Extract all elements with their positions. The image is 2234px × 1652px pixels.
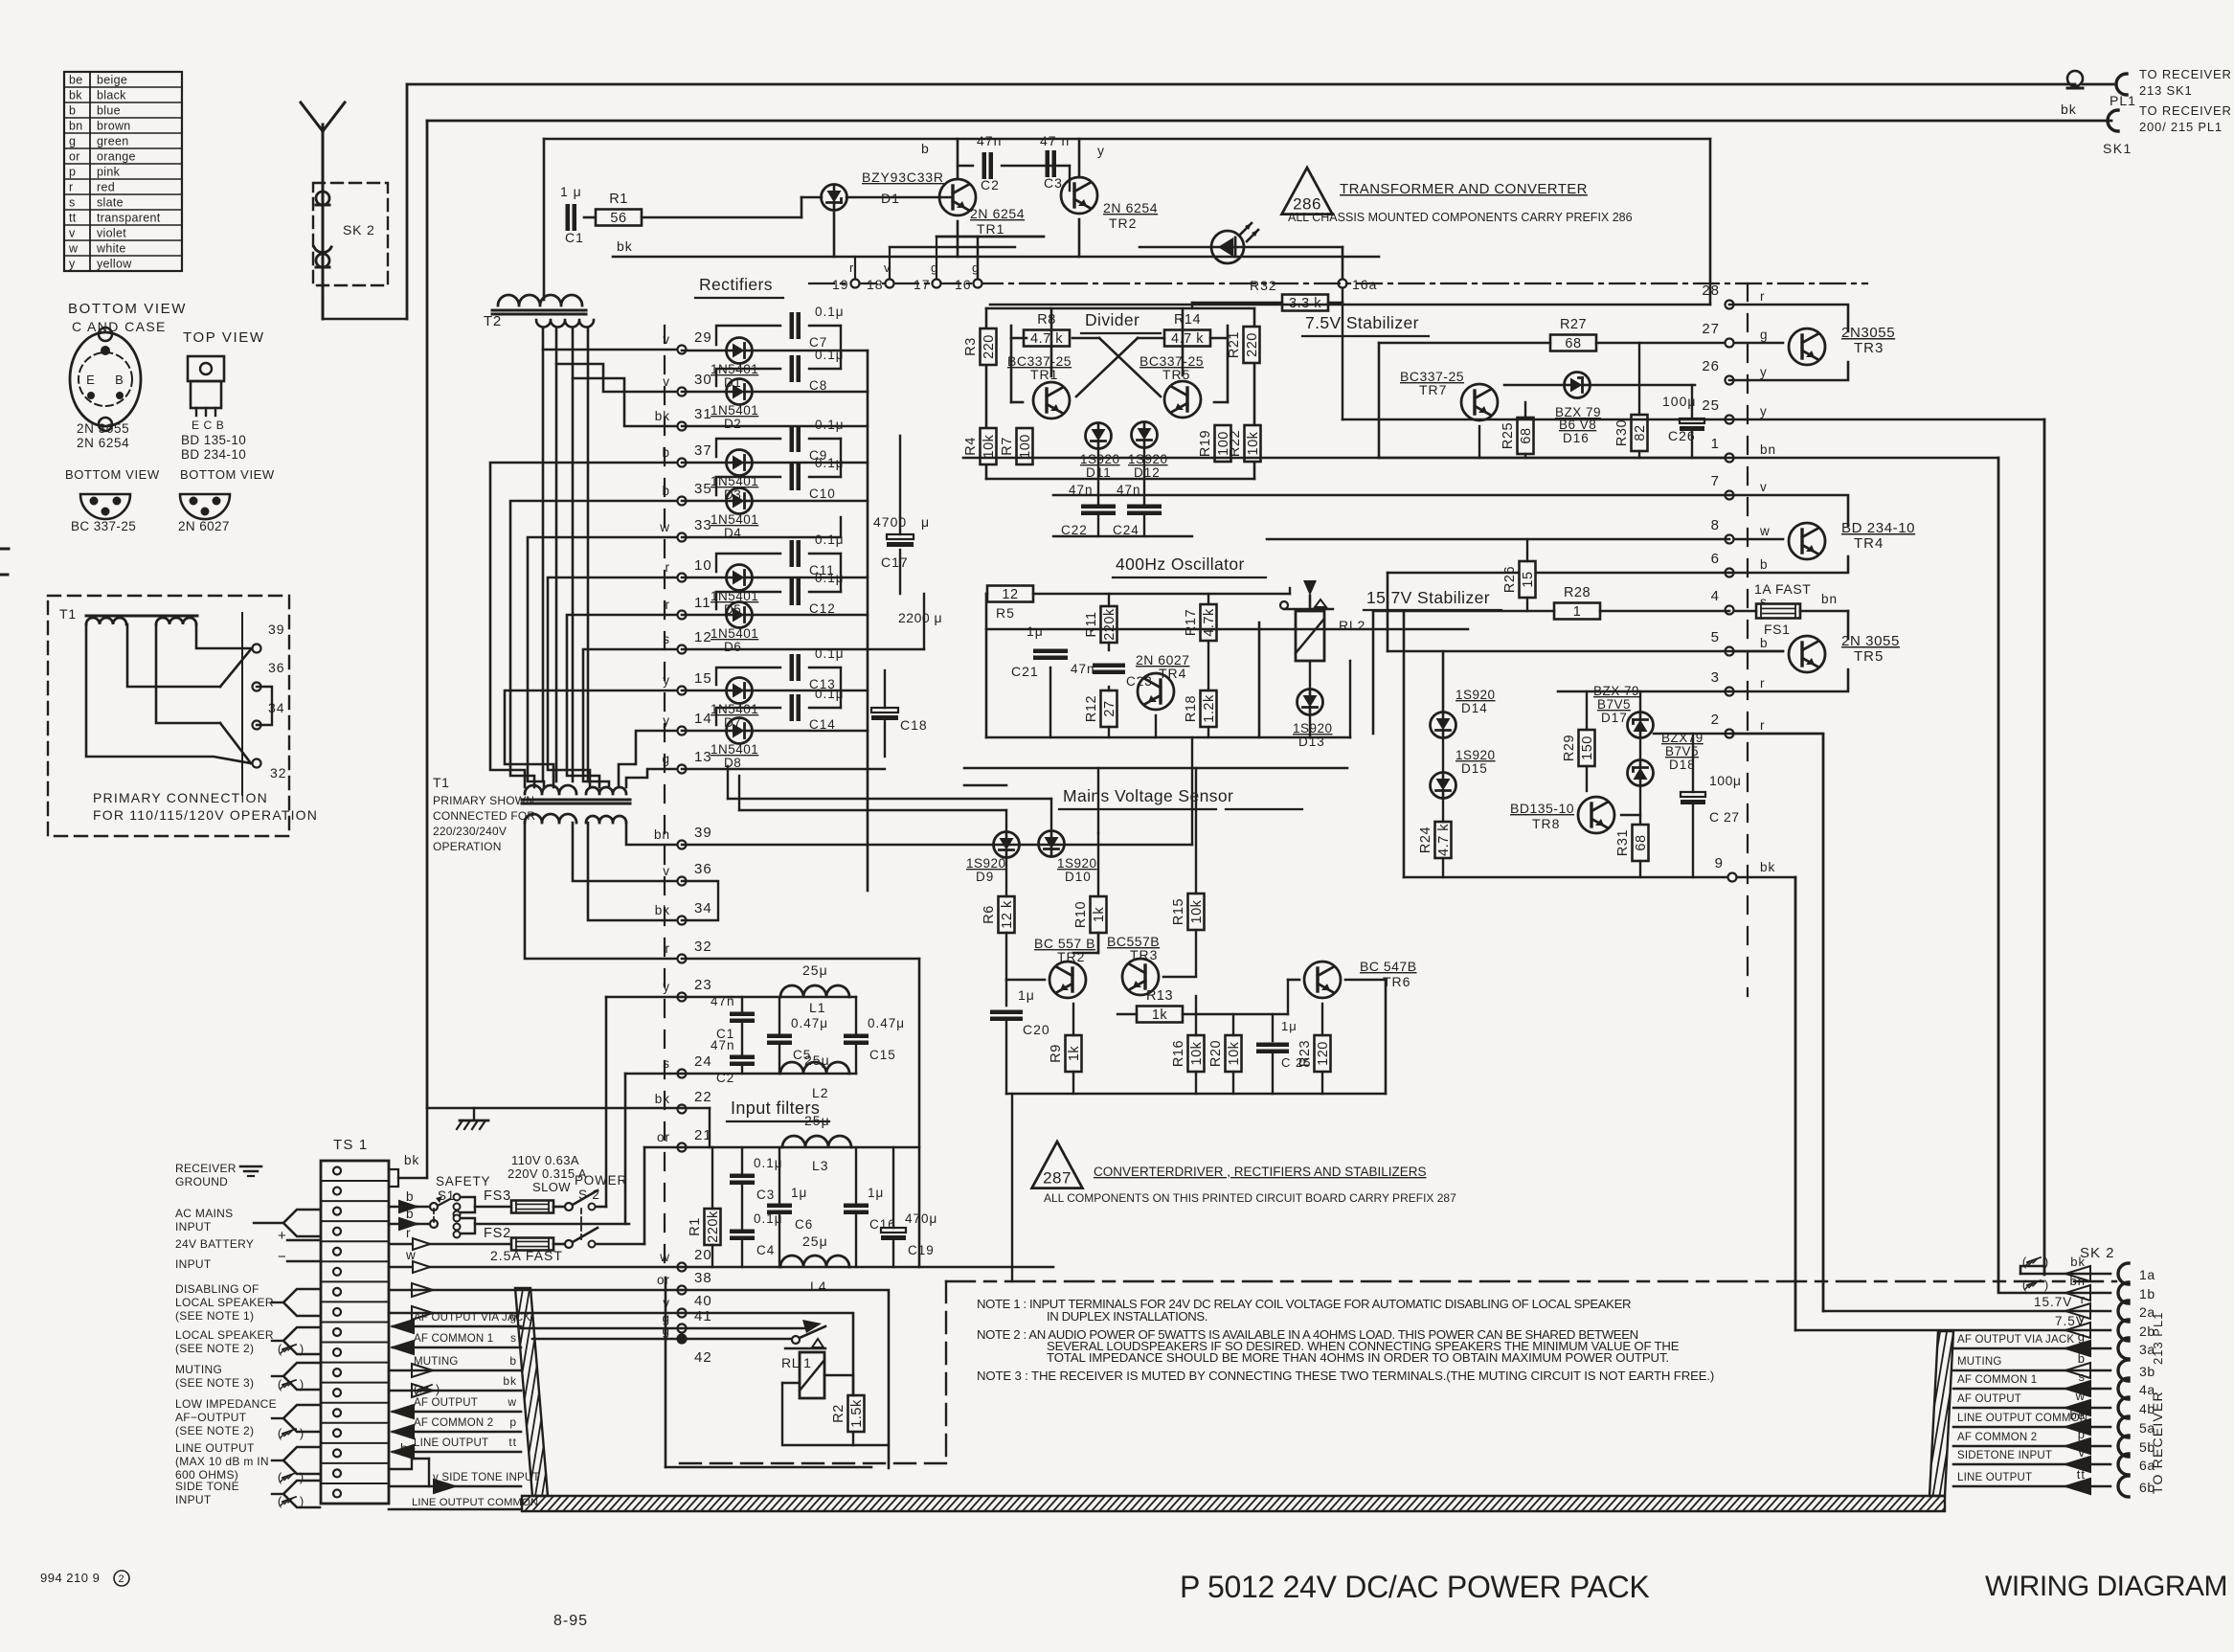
svg-text:13: 13 (694, 749, 712, 765)
svg-text:+: + (278, 1228, 287, 1244)
svg-text:1μ: 1μ (1027, 623, 1044, 639)
svg-text:220/230/240V: 220/230/240V (433, 825, 507, 838)
svg-text:C 27: C 27 (1709, 809, 1740, 825)
svg-text:TR5: TR5 (1162, 367, 1190, 382)
svg-text:4.7k: 4.7k (1202, 608, 1217, 637)
svg-text:tt: tt (2077, 1467, 2086, 1482)
svg-text:BC 547B: BC 547B (1360, 959, 1417, 974)
svg-text:PRIMARY CONNECTION: PRIMARY CONNECTION (93, 790, 268, 805)
svg-text:C22: C22 (1061, 523, 1088, 537)
svg-text:LINE OUTPUT COMMON: LINE OUTPUT COMMON (1957, 1413, 2087, 1424)
svg-text:C17: C17 (881, 554, 909, 570)
svg-text:4.7 k: 4.7 k (1171, 331, 1204, 347)
svg-text:AF−OUTPUT: AF−OUTPUT (175, 1411, 247, 1424)
svg-text:RL2: RL2 (1339, 618, 1365, 633)
svg-text:2N3055: 2N3055 (1841, 325, 1895, 341)
svg-text:TO RECEIVER: TO RECEIVER (2139, 103, 2232, 118)
svg-text:R24: R24 (1418, 826, 1433, 853)
svg-text:1S920: 1S920 (1455, 748, 1496, 762)
svg-text:blue: blue (97, 104, 121, 118)
svg-text:10k: 10k (1189, 899, 1205, 923)
svg-text:CONVERTERDRIVER , RECTIFIERS: CONVERTERDRIVER , RECTIFIERS AND STABILI… (1094, 1165, 1427, 1179)
svg-text:slate: slate (97, 196, 124, 210)
svg-text:D12: D12 (1134, 465, 1161, 480)
svg-text:R29: R29 (1562, 735, 1577, 761)
svg-text:Rectifiers: Rectifiers (699, 275, 773, 294)
svg-text:D18: D18 (1669, 758, 1696, 772)
svg-text:FOR 110/115/120V OPERATION: FOR 110/115/120V OPERATION (93, 807, 318, 823)
svg-text:1N5401: 1N5401 (711, 702, 758, 716)
svg-text:8: 8 (1711, 517, 1720, 533)
svg-text:red: red (97, 181, 115, 194)
svg-text:TR4: TR4 (1854, 535, 1884, 552)
svg-text:r: r (666, 560, 671, 575)
svg-text:μ: μ (921, 514, 930, 530)
svg-text:s: s (2079, 1369, 2087, 1384)
svg-text:LINE OUTPUT COMMON: LINE OUTPUT COMMON (412, 1497, 538, 1508)
svg-text:INPUT: INPUT (175, 1257, 212, 1271)
svg-text:D13: D13 (1298, 735, 1325, 749)
svg-text:bk: bk (404, 1153, 419, 1167)
svg-text:AF COMMON 1: AF COMMON 1 (414, 1333, 493, 1345)
svg-text:bk: bk (655, 903, 670, 917)
svg-text:R16: R16 (1171, 1040, 1186, 1067)
svg-text:BOTTOM VIEW: BOTTOM VIEW (68, 301, 187, 317)
svg-text:1: 1 (1711, 436, 1720, 452)
svg-text:C6: C6 (795, 1217, 813, 1232)
svg-text:D9: D9 (976, 870, 994, 884)
svg-text:LOW IMPEDANCE: LOW IMPEDANCE (175, 1397, 277, 1411)
svg-text:TR4: TR4 (1159, 666, 1186, 681)
svg-text:TR1: TR1 (1030, 367, 1058, 382)
svg-text:400Hz Oscillator: 400Hz Oscillator (1116, 554, 1245, 574)
svg-text:R12: R12 (1084, 695, 1099, 722)
svg-text:(MAX 10 dB m IN: (MAX 10 dB m IN (175, 1455, 269, 1468)
svg-text:TR6: TR6 (1383, 974, 1410, 989)
svg-text:SK 2: SK 2 (343, 222, 375, 238)
svg-text:p: p (69, 166, 76, 179)
svg-text:47n: 47n (711, 994, 735, 1008)
svg-text:g: g (69, 135, 76, 148)
svg-text:1S920: 1S920 (966, 856, 1006, 871)
svg-text:NOTE 3 : THE RECEIVER IS MUTED: NOTE 3 : THE RECEIVER IS MUTED BY CONNEC… (977, 1369, 1714, 1383)
svg-text:1k: 1k (1092, 907, 1107, 923)
svg-text:L1: L1 (809, 1000, 826, 1015)
svg-text:B: B (115, 373, 124, 387)
svg-text:bn: bn (2070, 1274, 2086, 1288)
svg-text:10: 10 (694, 557, 712, 574)
svg-text:15: 15 (1521, 571, 1536, 587)
svg-text:bk: bk (69, 89, 82, 102)
svg-text:15.7V: 15.7V (2034, 1295, 2072, 1309)
svg-text:R1: R1 (609, 192, 628, 207)
svg-text:41: 41 (694, 1308, 712, 1324)
svg-text:2200 μ: 2200 μ (898, 610, 942, 625)
svg-text:TOP VIEW: TOP VIEW (183, 329, 265, 346)
svg-text:bn: bn (654, 827, 670, 842)
svg-text:35: 35 (694, 481, 712, 497)
svg-text:27: 27 (1702, 321, 1720, 337)
svg-text:12: 12 (694, 629, 712, 645)
svg-text:R19: R19 (1198, 430, 1213, 457)
svg-text:2N 6027: 2N 6027 (178, 519, 230, 533)
svg-text:D6: D6 (724, 640, 741, 654)
svg-text:): ) (2044, 1278, 2048, 1292)
svg-text:TR3: TR3 (1130, 947, 1158, 962)
svg-text:27: 27 (1102, 700, 1117, 716)
svg-text:R3: R3 (963, 337, 979, 356)
svg-text:AC MAINS: AC MAINS (175, 1207, 233, 1220)
svg-text:1N5401: 1N5401 (711, 742, 758, 757)
svg-text:TR5: TR5 (1854, 648, 1884, 665)
svg-text:PL1: PL1 (2110, 93, 2136, 108)
svg-text:3: 3 (1711, 669, 1720, 686)
svg-text:b: b (69, 104, 76, 118)
svg-text:24V BATTERY: 24V BATTERY (175, 1237, 254, 1251)
svg-text:be: be (69, 74, 83, 87)
svg-text:r: r (666, 941, 671, 956)
svg-text:200/ 215 PL1: 200/ 215 PL1 (2139, 120, 2223, 134)
svg-text:1.2k: 1.2k (1202, 694, 1217, 723)
svg-text:18: 18 (867, 277, 884, 292)
svg-text:D1: D1 (881, 191, 900, 206)
svg-text:2N 3055: 2N 3055 (77, 421, 129, 436)
svg-text:D8: D8 (724, 756, 741, 770)
svg-text:10k: 10k (1189, 1041, 1205, 1065)
svg-text:1μ: 1μ (868, 1186, 884, 1200)
svg-text:brown: brown (97, 120, 131, 133)
svg-text:E C B: E C B (192, 419, 224, 432)
svg-text:C AND CASE: C AND CASE (72, 319, 167, 334)
svg-text:12 k: 12 k (1000, 900, 1015, 929)
svg-text:Mains Voltage Sensor: Mains Voltage Sensor (1063, 786, 1233, 805)
svg-text:14: 14 (694, 711, 712, 727)
svg-text:AF OUTPUT VIA JACK: AF OUTPUT VIA JACK (1957, 1334, 2074, 1346)
svg-text:AF COMMON 1: AF COMMON 1 (1957, 1374, 2037, 1386)
svg-text:w: w (2075, 1389, 2086, 1403)
svg-text:TS 1: TS 1 (333, 1137, 368, 1153)
svg-text:TOTAL IMPEDANCE SHOULD BE MORE: TOTAL IMPEDANCE SHOULD BE MORE THAN 4OHM… (1047, 1350, 1669, 1365)
svg-text:p: p (509, 1415, 517, 1429)
svg-text:30: 30 (694, 372, 712, 388)
svg-text:2.5A FAST: 2.5A FAST (490, 1248, 563, 1263)
svg-text:b: b (406, 1189, 415, 1204)
svg-text:AF COMMON 2: AF COMMON 2 (414, 1417, 493, 1429)
svg-text:D10: D10 (1065, 870, 1092, 884)
svg-text:220: 220 (982, 334, 997, 359)
svg-text:39: 39 (268, 622, 285, 637)
svg-text:b: b (662, 445, 670, 460)
svg-text:37: 37 (694, 442, 712, 459)
svg-text:R17: R17 (1184, 609, 1199, 636)
svg-text:7.5V Stabilizer: 7.5V Stabilizer (1305, 313, 1419, 332)
svg-text:1S920: 1S920 (1080, 452, 1120, 466)
svg-text:): ) (436, 1382, 440, 1396)
svg-text:BD135-10: BD135-10 (1510, 801, 1574, 816)
svg-text:R30: R30 (1614, 419, 1630, 446)
svg-text:994 210 9: 994 210 9 (40, 1571, 100, 1585)
svg-text:AF COMMON 2: AF COMMON 2 (1957, 1432, 2037, 1443)
svg-text:C1: C1 (565, 230, 584, 245)
svg-text:1S920: 1S920 (1057, 856, 1097, 871)
svg-text:D14: D14 (1461, 701, 1488, 715)
svg-text:(SEE NOTE 2): (SEE NOTE 2) (175, 1424, 254, 1437)
svg-text:R4: R4 (963, 437, 979, 456)
svg-text:RECEIVER: RECEIVER (175, 1162, 237, 1175)
svg-text:AF OUTPUT: AF OUTPUT (1957, 1393, 2021, 1405)
svg-text:IN DUPLEX INSTALLATIONS.: IN DUPLEX INSTALLATIONS. (1047, 1309, 1207, 1324)
svg-text:p: p (2078, 1427, 2086, 1441)
svg-text:25μ: 25μ (802, 962, 828, 978)
svg-text:3b: 3b (2139, 1364, 2155, 1379)
svg-text:w: w (507, 1395, 517, 1409)
svg-text:R25: R25 (1501, 422, 1516, 449)
svg-text:110V 0.63A: 110V 0.63A (511, 1153, 579, 1167)
svg-text:transparent: transparent (97, 212, 161, 225)
svg-text:47n: 47n (1071, 662, 1095, 676)
svg-text:29: 29 (694, 329, 712, 346)
svg-text:SAFETY: SAFETY (436, 1174, 490, 1188)
svg-text:TR1: TR1 (977, 221, 1004, 237)
svg-text:DISABLING OF: DISABLING OF (175, 1282, 260, 1296)
svg-text:R31: R31 (1615, 829, 1631, 856)
svg-text:68: 68 (1565, 336, 1581, 351)
svg-text:7.5V: 7.5V (2055, 1314, 2086, 1328)
svg-text:0.1μ: 0.1μ (815, 305, 845, 319)
svg-text:SIDE TONE: SIDE TONE (175, 1480, 239, 1493)
svg-text:213 SK1: 213 SK1 (2139, 83, 2192, 98)
svg-text:BD 234-10: BD 234-10 (181, 447, 246, 462)
svg-text:LINE OUTPUT: LINE OUTPUT (414, 1437, 488, 1449)
svg-text:1S920: 1S920 (1128, 452, 1168, 466)
svg-text:ALL COMPONENTS ON THIS PRINTED: ALL COMPONENTS ON THIS PRINTED CIRCUIT B… (1044, 1191, 1456, 1205)
svg-text:v: v (2079, 1445, 2087, 1460)
svg-text:R22: R22 (1228, 430, 1243, 457)
svg-text:16: 16 (955, 277, 972, 292)
svg-text:w: w (405, 1248, 417, 1262)
svg-text:r: r (69, 181, 73, 194)
svg-text:w: w (1759, 524, 1771, 538)
svg-text:C18: C18 (900, 717, 928, 733)
svg-text:AF OUTPUT: AF OUTPUT (414, 1397, 478, 1409)
svg-text:1: 1 (1573, 604, 1582, 620)
svg-text:FS3: FS3 (484, 1188, 511, 1204)
svg-text:2N 6254: 2N 6254 (77, 436, 129, 450)
svg-text:LINE OUTPUT: LINE OUTPUT (175, 1441, 255, 1455)
svg-text:TR8: TR8 (1532, 816, 1560, 831)
svg-text:TR3: TR3 (1854, 340, 1884, 356)
svg-text:T1: T1 (59, 606, 77, 622)
svg-text:black: black (97, 89, 126, 102)
svg-text:C21: C21 (1011, 664, 1039, 679)
svg-text:C2: C2 (981, 177, 1000, 192)
svg-text:D17: D17 (1601, 711, 1628, 725)
svg-text:220V 0.315 A: 220V 0.315 A (508, 1166, 587, 1181)
svg-text:C3: C3 (1044, 175, 1063, 191)
svg-text:100μ: 100μ (1709, 773, 1741, 788)
svg-text:7: 7 (1711, 473, 1720, 489)
svg-text:1N5401: 1N5401 (711, 512, 758, 527)
svg-text:FS1: FS1 (1764, 622, 1790, 637)
svg-text:R13: R13 (1146, 988, 1173, 1004)
svg-text:31: 31 (694, 406, 712, 422)
svg-text:R27: R27 (1560, 317, 1587, 332)
svg-text:1S920: 1S920 (1293, 721, 1333, 735)
svg-text:4700: 4700 (873, 514, 907, 530)
svg-text:BOTTOM VIEW: BOTTOM VIEW (180, 467, 275, 482)
svg-text:b: b (1760, 557, 1769, 572)
svg-text:INPUT: INPUT (175, 1493, 212, 1506)
svg-text:120: 120 (1316, 1041, 1331, 1066)
svg-text:L3: L3 (812, 1158, 829, 1173)
svg-text:4: 4 (1711, 588, 1720, 604)
svg-text:39: 39 (694, 825, 712, 841)
svg-text:C3: C3 (756, 1188, 775, 1202)
svg-text:orange: orange (97, 150, 136, 164)
svg-text:R32: R32 (1250, 278, 1277, 293)
svg-text:b: b (921, 141, 930, 156)
svg-text:T2: T2 (484, 313, 502, 329)
svg-text:1a: 1a (2139, 1267, 2155, 1282)
svg-text:4.7 k: 4.7 k (1436, 824, 1452, 856)
svg-text:L2: L2 (812, 1085, 829, 1100)
svg-text:BZX79: BZX79 (1661, 731, 1704, 745)
svg-text:C2: C2 (716, 1071, 734, 1085)
svg-text:1k: 1k (1152, 1007, 1168, 1023)
svg-text:MUTING: MUTING (175, 1363, 222, 1376)
svg-text:b: b (2078, 1351, 2086, 1366)
svg-text:yellow: yellow (97, 258, 132, 271)
svg-text:P 5012 24V DC/AC POWER PA: P 5012 24V DC/AC POWER PACK (1180, 1570, 1649, 1604)
svg-text:25: 25 (1702, 397, 1720, 414)
svg-text:bk: bk (2061, 102, 2077, 117)
svg-text:42: 42 (694, 1349, 712, 1366)
svg-text:20: 20 (694, 1247, 712, 1263)
svg-text:C15: C15 (869, 1048, 896, 1062)
svg-text:38: 38 (694, 1270, 712, 1286)
svg-text:B7V5: B7V5 (1597, 697, 1631, 712)
svg-text:r: r (406, 1226, 412, 1240)
svg-text:C4: C4 (756, 1243, 775, 1257)
svg-text:R26: R26 (1502, 566, 1518, 593)
svg-text:33: 33 (694, 517, 712, 533)
svg-text:(SEE NOTE 3): (SEE NOTE 3) (175, 1376, 254, 1390)
svg-text:R20: R20 (1208, 1040, 1224, 1067)
svg-text:R23: R23 (1298, 1040, 1313, 1067)
svg-text:C5: C5 (793, 1048, 811, 1062)
svg-text:SLOW: SLOW (532, 1180, 571, 1194)
svg-text:bn: bn (1821, 592, 1838, 606)
svg-text:S 2: S 2 (578, 1188, 600, 1202)
svg-text:bn: bn (69, 120, 83, 133)
svg-text:): ) (300, 1426, 304, 1440)
svg-text:D15: D15 (1461, 761, 1488, 776)
svg-text:470μ: 470μ (905, 1211, 937, 1226)
svg-text:TO RECEIVER: TO RECEIVER (2139, 67, 2232, 81)
svg-text:beige: beige (97, 74, 127, 87)
svg-text:25μ: 25μ (802, 1233, 828, 1249)
svg-text:C20: C20 (1023, 1022, 1050, 1037)
svg-text:34: 34 (268, 700, 285, 715)
svg-text:287: 287 (1043, 1169, 1072, 1188)
svg-text:R18: R18 (1184, 695, 1199, 722)
svg-text:(SEE NOTE 1): (SEE NOTE 1) (175, 1309, 254, 1323)
svg-text:SK1: SK1 (2103, 141, 2132, 156)
svg-text:FS2: FS2 (484, 1226, 511, 1241)
svg-text:17: 17 (914, 277, 931, 292)
svg-text:D16: D16 (1563, 431, 1590, 445)
svg-text:82: 82 (1633, 424, 1648, 441)
svg-text:R11: R11 (1084, 611, 1099, 637)
svg-text:2N 3055: 2N 3055 (1841, 633, 1900, 649)
svg-text:WIRING DIAGRAM: WIRING DIAGRAM (1985, 1571, 2227, 1602)
svg-text:100: 100 (1018, 434, 1033, 459)
svg-text:s: s (69, 196, 76, 210)
svg-text:T1: T1 (433, 775, 450, 790)
svg-text:47 n: 47 n (1040, 133, 1070, 148)
svg-text:tt: tt (508, 1436, 517, 1449)
svg-text:15.7V Stabilizer: 15.7V Stabilizer (1366, 588, 1490, 607)
svg-text:b: b (1760, 636, 1769, 650)
svg-text:R10: R10 (1073, 901, 1089, 928)
svg-text:28: 28 (1702, 283, 1720, 299)
svg-text:C10: C10 (809, 487, 836, 501)
svg-text:OPERATION: OPERATION (433, 840, 502, 853)
svg-text:−: − (278, 1249, 287, 1265)
svg-text:y: y (1097, 143, 1105, 158)
svg-text:BZY93C33R: BZY93C33R (862, 170, 944, 185)
svg-text:R14: R14 (1174, 312, 1201, 328)
svg-text:10k: 10k (1227, 1041, 1242, 1065)
svg-text:s: s (510, 1331, 517, 1345)
svg-text:32: 32 (694, 939, 712, 955)
svg-text:INPUT: INPUT (175, 1220, 212, 1233)
svg-text:(SEE NOTE 2): (SEE NOTE 2) (175, 1342, 254, 1355)
svg-text:1μ: 1μ (1018, 987, 1035, 1003)
svg-text:1N5401: 1N5401 (711, 626, 758, 641)
svg-text:): ) (300, 1470, 304, 1484)
svg-text:C19: C19 (908, 1243, 935, 1257)
svg-text:g: g (509, 1310, 517, 1324)
svg-text:1μ: 1μ (1281, 1019, 1298, 1033)
svg-text:b: b (509, 1354, 517, 1368)
svg-text:bk: bk (655, 1092, 670, 1106)
svg-text:220: 220 (1245, 332, 1260, 357)
svg-text:LOCAL SPEAKER: LOCAL SPEAKER (175, 1296, 274, 1309)
svg-text:2N 6254: 2N 6254 (1103, 200, 1158, 215)
svg-text:S1: S1 (438, 1188, 455, 1203)
svg-text:220k: 220k (706, 1211, 721, 1243)
svg-text:v: v (663, 864, 670, 878)
svg-text:green: green (97, 135, 128, 148)
svg-text:2N 6254: 2N 6254 (970, 206, 1025, 221)
svg-text:1μ: 1μ (791, 1186, 807, 1200)
svg-text:C24: C24 (1113, 523, 1140, 537)
svg-text:1k: 1k (1067, 1046, 1082, 1062)
svg-text:68: 68 (1634, 834, 1649, 850)
svg-text:32: 32 (270, 765, 287, 781)
svg-text:BOTTOM VIEW: BOTTOM VIEW (65, 467, 160, 482)
svg-text:Divider: Divider (1085, 310, 1140, 329)
svg-text:R6: R6 (982, 905, 997, 924)
svg-text:2: 2 (1711, 712, 1720, 728)
svg-text:R21: R21 (1227, 331, 1242, 358)
svg-text:R2: R2 (831, 1404, 846, 1423)
svg-text:TR7: TR7 (1419, 382, 1447, 397)
svg-text:D2: D2 (724, 417, 741, 431)
svg-text:r: r (1760, 718, 1766, 733)
svg-text:34: 34 (694, 900, 712, 917)
